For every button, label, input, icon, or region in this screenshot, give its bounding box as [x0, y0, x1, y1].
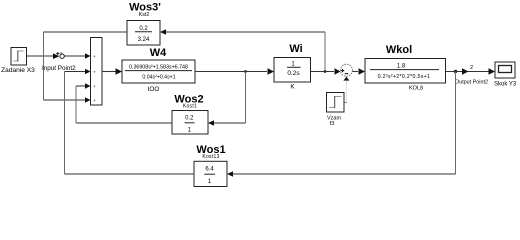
svg-text:IOO: IOO	[148, 86, 160, 93]
arrowhead into Wos2 right edge	[208, 120, 214, 126]
svg-text:3.24: 3.24	[138, 37, 150, 43]
scope block Skok Y3	[494, 62, 517, 88]
wire W4 to Wi	[195, 71, 267, 73]
wire Wos2 output: left then up to sum-rect input 3	[76, 122, 172, 124]
svg-text:f3: f3	[330, 121, 335, 127]
svg-text:0.2: 0.2	[139, 26, 148, 32]
wire sum circle to Wkol	[352, 71, 358, 73]
step source Zadanie X3	[1, 48, 35, 74]
branch B vertical from Wi output wire up	[324, 32, 326, 72]
svg-text:6.4: 6.4	[205, 167, 214, 173]
junction dot branch B	[324, 70, 327, 73]
sum junction circle	[340, 64, 352, 76]
wire Wos1 output: left then up to sum-rect input 2	[65, 173, 195, 175]
arrowhead into Wkol	[359, 68, 366, 74]
svg-text:0.2²s²+2*0.2*0.5s+1: 0.2²s²+2*0.2*0.5s+1	[378, 74, 431, 80]
svg-text:0.04s²+0.4s+1: 0.04s²+0.4s+1	[142, 75, 175, 81]
svg-text:+: +	[93, 98, 96, 103]
wire marker to sum-rect input 1	[65, 55, 86, 57]
feedback wire from output junction down to Wos1	[455, 72, 457, 175]
svg-text:0.36908s²+1.583s+6.748: 0.36908s²+1.583s+6.748	[129, 64, 188, 70]
wire from branch B into Wos3' (right to left)	[166, 31, 325, 33]
junction dot output	[454, 70, 457, 73]
svg-text:Input Point2: Input Point2	[42, 65, 76, 72]
wire Wos3' output: left then down to sum-rect input 4	[44, 31, 128, 33]
transfer function W4	[122, 47, 195, 93]
arrowhead into sum circle	[335, 68, 341, 74]
input point marker circle (Input Point2)	[56, 51, 64, 59]
svg-text:W4: W4	[150, 47, 167, 59]
svg-text:KOL8: KOL8	[409, 86, 423, 92]
svg-text:K: K	[290, 83, 295, 90]
svg-text:Kost13: Kost13	[202, 154, 219, 160]
arrowhead input3	[85, 83, 91, 89]
svg-text:2: 2	[470, 65, 473, 71]
arrowhead input4	[85, 97, 91, 103]
svg-text:Zadanie X3: Zadanie X3	[1, 67, 35, 74]
junction dot branch A	[244, 70, 247, 73]
wire sum-rect output to W4	[102, 71, 116, 73]
svg-text:0.2s: 0.2s	[287, 70, 300, 77]
arrowhead into scope	[489, 68, 496, 74]
arrowhead into Wos1 right edge	[227, 171, 233, 177]
step source Vzam f3	[327, 93, 345, 127]
output wire from Wkol to scope	[446, 71, 490, 73]
transfer function Wi	[274, 43, 311, 90]
svg-text:Kst2: Kst2	[139, 12, 150, 18]
svg-text:+: +	[93, 84, 96, 89]
svg-text:1.8: 1.8	[397, 64, 406, 70]
arrowhead input1	[85, 53, 91, 59]
arrowhead into W4	[116, 68, 123, 74]
arrowhead into Wi	[268, 68, 275, 74]
svg-text:+: +	[93, 70, 96, 75]
svg-text:Wkol: Wkol	[386, 44, 412, 56]
svg-text:+: +	[93, 54, 96, 59]
svg-text:Skok Y3: Skok Y3	[494, 82, 517, 88]
transfer function Wos3'	[127, 2, 161, 45]
transfer function Wos1	[194, 144, 227, 187]
arrowhead into Wos3' right edge	[160, 29, 166, 35]
transfer function Wos2	[172, 94, 208, 135]
wire step to input-point marker	[27, 55, 54, 57]
svg-text:Wi: Wi	[289, 43, 302, 55]
svg-text:Kost1: Kost1	[183, 104, 197, 110]
arrowhead from below into sum circle	[343, 77, 349, 81]
svg-text:Output Point2: Output Point2	[455, 80, 488, 86]
sum rectangle block (4 inputs)	[91, 38, 103, 106]
svg-text:0.2: 0.2	[185, 116, 194, 122]
wire Wi to sum circle	[311, 71, 335, 73]
output point marker arrowhead	[462, 68, 469, 74]
branch A down to Wos2	[245, 72, 247, 124]
faint wire from Vzam up to sum circle	[345, 81, 347, 103]
transfer function Wkol	[365, 44, 446, 92]
arrowhead into marker	[53, 53, 59, 59]
arrowhead input2	[85, 69, 91, 75]
